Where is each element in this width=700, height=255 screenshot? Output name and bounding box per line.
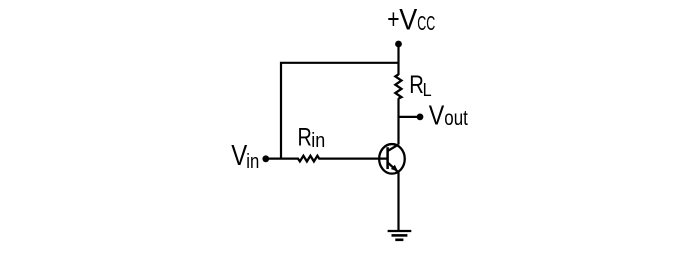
svg-text:V: V (429, 100, 445, 131)
svg-text:out: out (444, 106, 468, 130)
svg-text:in: in (311, 130, 325, 152)
svg-text:CC: CC (417, 13, 435, 35)
svg-text:V: V (399, 3, 417, 36)
svg-text:R: R (298, 124, 312, 152)
svg-text:L: L (423, 79, 432, 100)
svg-text:+: + (387, 3, 399, 34)
svg-text:V: V (231, 140, 247, 172)
svg-text:in: in (246, 151, 259, 173)
